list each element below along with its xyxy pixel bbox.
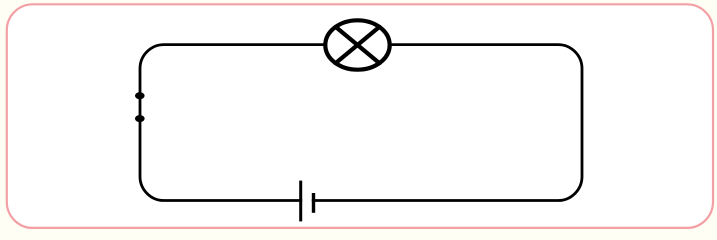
junction dot 1	[135, 92, 145, 99]
junction dot 2	[135, 115, 145, 122]
wire loop	[140, 45, 582, 201]
lamp	[325, 20, 389, 69]
battery	[301, 181, 314, 222]
